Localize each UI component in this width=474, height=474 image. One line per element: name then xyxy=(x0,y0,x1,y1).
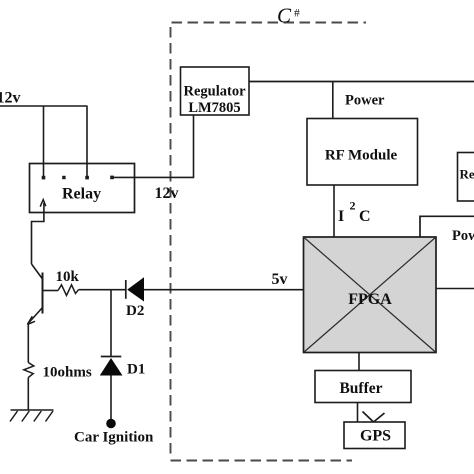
svg-text:Power: Power xyxy=(345,93,385,109)
node Car Ignition terminal xyxy=(106,419,116,429)
wire drop to relay pin3 xyxy=(86,106,88,176)
svg-text:I: I xyxy=(338,208,344,225)
svg-text:C: C xyxy=(359,208,371,225)
svg-text:12v: 12v xyxy=(155,185,179,202)
svg-text:12v: 12v xyxy=(0,90,21,107)
ground xyxy=(11,409,54,411)
regulator U1 box xyxy=(181,67,250,115)
wire power drop to RF module xyxy=(332,82,334,119)
svg-text:Power: Power xyxy=(452,228,474,244)
diode D1 xyxy=(101,356,122,358)
svg-text:10ohms: 10ohms xyxy=(43,365,92,381)
receiver box (clipped right) xyxy=(458,153,474,202)
svg-text:Relay: Relay xyxy=(62,186,101,203)
RF module box xyxy=(307,119,418,186)
GPS antenna symbol xyxy=(363,412,385,423)
svg-text:C: C xyxy=(277,4,292,28)
wire buffer to GPS xyxy=(357,403,359,424)
wire pin3 inside xyxy=(86,164,88,176)
dashed enclosure top edge xyxy=(172,22,367,24)
svg-text:LM7805: LM7805 xyxy=(188,100,240,116)
svg-text:10k: 10k xyxy=(56,269,80,285)
wire 5v to FPGA xyxy=(144,289,304,291)
svg-text:RF Module: RF Module xyxy=(325,148,398,164)
wire relay pin4 to regulator xyxy=(112,115,194,177)
wire branch to D1 xyxy=(110,290,112,357)
svg-text:Regulator: Regulator xyxy=(183,84,246,100)
dashed enclosure left edge xyxy=(170,27,172,459)
dashed enclosure bottom edge xyxy=(171,460,353,462)
svg-text:Car Ignition: Car Ignition xyxy=(74,430,154,446)
GPS box xyxy=(344,422,405,449)
svg-text:Receiver: Receiver xyxy=(460,167,474,182)
wire D1 to car ignition xyxy=(110,376,112,420)
svg-text:Buffer: Buffer xyxy=(339,380,382,397)
wire 12v supply top xyxy=(0,105,88,107)
svg-text:2: 2 xyxy=(350,199,356,213)
wire base lead xyxy=(43,290,59,292)
wire FPGA right port xyxy=(436,288,474,290)
buffer box xyxy=(315,371,411,403)
relay pin 1 xyxy=(42,176,46,180)
relay pin 3 xyxy=(85,176,89,180)
svg-text:D2: D2 xyxy=(126,303,144,319)
relay pin 4 xyxy=(110,176,114,180)
resistor 10k (zigzag) xyxy=(58,285,79,296)
wire drop to relay pin1 xyxy=(43,106,45,176)
diode D2 xyxy=(125,280,127,299)
relay coil arrow xyxy=(43,203,45,213)
wire 10ohms to ground xyxy=(27,378,29,411)
svg-text:FPGA: FPGA xyxy=(348,291,392,308)
wire emitter to 10ohms xyxy=(27,323,29,363)
wire I2C bus xyxy=(333,185,335,237)
svg-text:5v: 5v xyxy=(272,271,288,288)
wire FPGA to buffer xyxy=(358,353,360,371)
svg-text:GPS: GPS xyxy=(360,428,391,445)
FPGA U2 box xyxy=(304,237,437,353)
svg-text:D1: D1 xyxy=(127,362,145,378)
wire to D2 xyxy=(79,289,127,291)
wire regulator output 5v rail xyxy=(249,81,474,83)
resistor 10ohms (zigzag) xyxy=(24,363,34,378)
transistor Q1 xyxy=(32,264,43,279)
wire pin1 inside xyxy=(43,164,45,176)
svg-text:#: # xyxy=(294,8,300,20)
emitter arrowhead xyxy=(27,316,35,324)
wire power corner (right) xyxy=(420,216,474,237)
wire relay coil to transistor collector xyxy=(32,213,44,265)
relay box xyxy=(30,164,135,213)
relay pin 2 xyxy=(62,176,65,179)
